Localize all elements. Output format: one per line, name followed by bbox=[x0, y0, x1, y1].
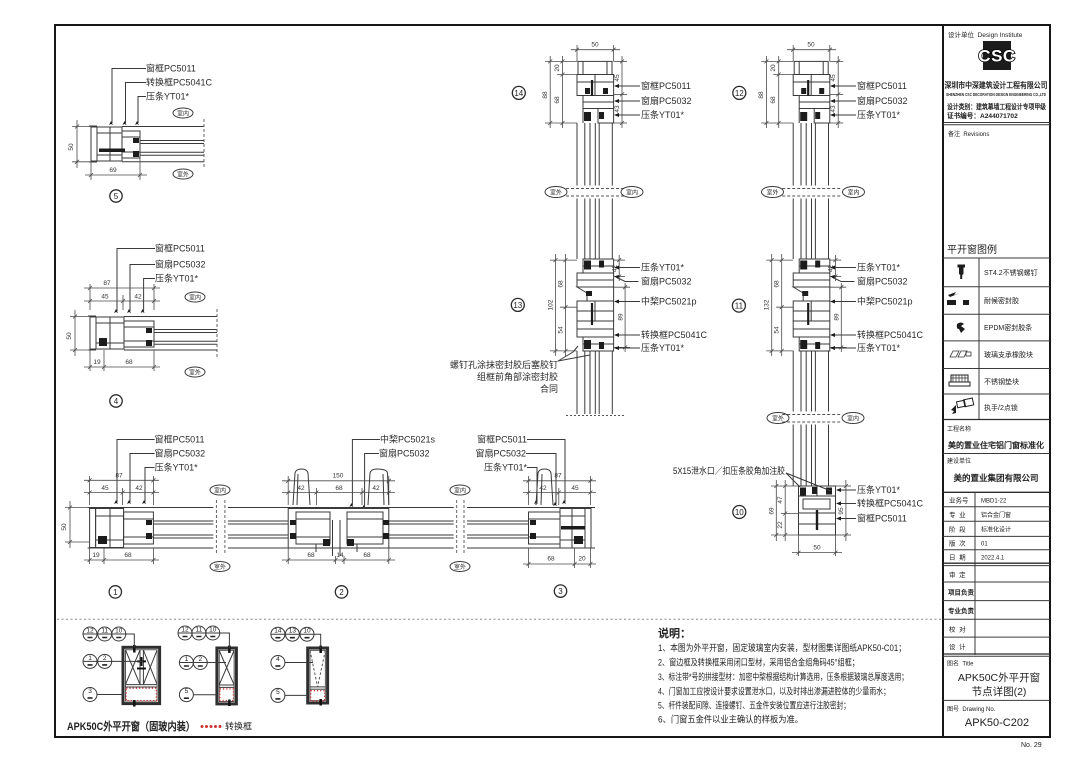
svg-text:转换框PC5041C: 转换框PC5041C bbox=[641, 329, 708, 340]
window 2 section marks bbox=[228, 646, 231, 654]
svg-text:2: 2 bbox=[339, 588, 344, 597]
detail 4 number circle bbox=[110, 395, 122, 407]
svg-text:窗扇PC5032: 窗扇PC5032 bbox=[641, 276, 692, 287]
detail 3 bottom dims 68 20 bbox=[523, 548, 596, 568]
handle profile on detail 2 right sash bbox=[368, 469, 389, 505]
signature rows bbox=[943, 581, 1050, 583]
handle profile on detail 2 left sash bbox=[293, 469, 310, 505]
red dots in caption bbox=[201, 725, 222, 728]
detail 14 labels bbox=[616, 86, 640, 115]
svg-text:转换框PC5041C: 转换框PC5041C bbox=[857, 498, 924, 509]
svg-text:窗框PC5011: 窗框PC5011 bbox=[477, 434, 527, 445]
svg-text:5、杆件装配间隙、连接螺钉、五金件安装位置应进行注胶密封；: 5、杆件装配间隙、连接螺钉、五金件安装位置应进行注胶密封； bbox=[658, 700, 850, 711]
svg-text:图名 Title: 图名 Title bbox=[947, 660, 974, 668]
glass run mid column upper bbox=[577, 123, 612, 259]
window 1 left bubbles 1 2 bbox=[83, 654, 143, 668]
legend row 6: handle / 2-point lock icon + text bbox=[951, 398, 974, 414]
svg-text:窗框PC5011: 窗框PC5011 bbox=[146, 63, 196, 74]
svg-text:68: 68 bbox=[770, 96, 777, 104]
detail 1 top dims 87 / 45 42 bbox=[84, 476, 159, 505]
detail 1 gaskets bbox=[146, 520, 152, 525]
svg-text:87: 87 bbox=[115, 473, 123, 480]
legend table frame bbox=[943, 257, 1050, 259]
svg-text:窗扇PC5032: 窗扇PC5032 bbox=[857, 95, 908, 106]
svg-text:设 计: 设 计 bbox=[949, 642, 966, 651]
svg-text:室外: 室外 bbox=[550, 189, 562, 197]
detail 4 frame profile bbox=[88, 316, 154, 350]
row outdoor ovals bbox=[210, 562, 230, 572]
legend row 1: screw icon + text bbox=[958, 265, 966, 280]
svg-text:转换框: 转换框 bbox=[225, 721, 252, 732]
window 1 section marks bbox=[133, 645, 136, 653]
svg-text:69: 69 bbox=[768, 507, 775, 515]
svg-text:19: 19 bbox=[92, 552, 100, 559]
svg-text:19: 19 bbox=[93, 359, 101, 366]
svg-text:1、本图为外平开窗，固定玻璃室内安装，型材图集详图纸APK5: 1、本图为外平开窗，固定玻璃室内安装，型材图集详图纸APK50-C01； bbox=[658, 642, 906, 653]
svg-text:APK50C外平开窗（固玻内装）: APK50C外平开窗（固玻内装） bbox=[67, 719, 195, 733]
svg-text:42: 42 bbox=[134, 294, 142, 301]
svg-text:合同: 合同 bbox=[540, 383, 558, 394]
svg-text:阶 段: 阶 段 bbox=[949, 525, 966, 534]
svg-text:2: 2 bbox=[198, 656, 202, 663]
detail 12 top dim 50 bbox=[787, 45, 836, 61]
svg-text:窗扇PC5032: 窗扇PC5032 bbox=[857, 276, 908, 287]
detail 10 left dims 69 47 22 bbox=[771, 480, 799, 541]
break right column upper with ovals bbox=[782, 186, 840, 199]
svg-text:87: 87 bbox=[103, 280, 111, 287]
svg-text:设计单位 Design Institute: 设计单位 Design Institute bbox=[948, 30, 1023, 39]
legend row 2: weather sealant icon + text bbox=[947, 292, 969, 305]
svg-text:室内: 室内 bbox=[177, 110, 189, 118]
svg-text:50: 50 bbox=[813, 545, 821, 552]
svg-text:中棃PC5021s: 中棃PC5021s bbox=[380, 434, 436, 445]
detail 13 left dims 102 68 54 bbox=[550, 254, 577, 356]
break mid column with ovals bbox=[566, 186, 624, 199]
title block left border bbox=[942, 25, 944, 737]
svg-text:68: 68 bbox=[554, 96, 561, 104]
svg-text:美的置业集团有限公司: 美的置业集团有限公司 bbox=[953, 473, 1038, 483]
svg-text:2、窗边框及转换框采用闭口型材，采用铝合金组角码45°组框；: 2、窗边框及转换框采用闭口型材，采用铝合金组角码45°组框； bbox=[658, 657, 859, 668]
legend row 4: glass setting block icon + text bbox=[950, 351, 971, 357]
svg-text:68: 68 bbox=[125, 359, 133, 366]
legend row 3: EPDM gasket icon + text bbox=[957, 323, 965, 334]
detail 5 number circle bbox=[110, 190, 122, 202]
screw note leader bbox=[558, 346, 578, 361]
detail 12 frame profile bbox=[793, 61, 830, 123]
info table bbox=[943, 491, 1050, 493]
svg-text:50: 50 bbox=[591, 42, 599, 49]
detail 14 left dims 88 20 68 bbox=[545, 56, 578, 128]
svg-text:室外: 室外 bbox=[772, 415, 784, 423]
separator double line bbox=[943, 122, 1050, 124]
svg-text:6、门窗五金件以业主确认的样板为准。: 6、门窗五金件以业主确认的样板为准。 bbox=[658, 714, 803, 725]
svg-text:43: 43 bbox=[830, 105, 837, 113]
svg-text:压条YT01*: 压条YT01* bbox=[484, 462, 528, 473]
svg-text:54: 54 bbox=[774, 326, 781, 334]
svg-text:日 期: 日 期 bbox=[949, 554, 966, 562]
detail 14 top dim 50 bbox=[571, 45, 620, 61]
window 2 left bubbles 1 2 bbox=[179, 656, 226, 670]
svg-text:42: 42 bbox=[297, 485, 305, 492]
svg-text:45: 45 bbox=[101, 485, 109, 492]
detail 13 right dims 42 89 bbox=[614, 255, 630, 352]
svg-text:证书编号：A244071702: 证书编号：A244071702 bbox=[947, 111, 1018, 120]
detail 14 number circle bbox=[512, 86, 525, 99]
svg-text:14: 14 bbox=[274, 628, 282, 635]
window 2 bottom bubble 5 bbox=[179, 688, 217, 702]
window 2 top bubbles 12 11 10 bbox=[178, 626, 229, 649]
svg-text:2022.4.1: 2022.4.1 bbox=[981, 556, 1005, 562]
svg-text:CSC: CSC bbox=[978, 47, 1015, 66]
svg-text:耐候密封胶: 耐候密封胶 bbox=[984, 296, 1019, 305]
svg-text:68: 68 bbox=[547, 556, 555, 563]
detail 11 labels bbox=[832, 268, 856, 349]
svg-text:标准化设计: 标准化设计 bbox=[981, 526, 1011, 534]
svg-text:4、门窗加工应按设计要求设置泄水口，以及时排出渗漏进腔体的少: 4、门窗加工应按设计要求设置泄水口，以及时排出渗漏进腔体的少量雨水； bbox=[658, 686, 890, 697]
window 1 elevation frame bbox=[123, 647, 160, 703]
window 1 red dotted transfer frame bbox=[126, 688, 156, 701]
window 2 elevation frame bbox=[217, 648, 237, 704]
svg-text:4: 4 bbox=[276, 656, 280, 663]
svg-text:20: 20 bbox=[578, 556, 586, 563]
detail 2 mullion profile bbox=[288, 509, 389, 557]
detail 14 gaskets and screw bbox=[585, 88, 590, 94]
svg-text:深圳市中深建筑设计工程有限公司: 深圳市中深建筑设计工程有限公司 bbox=[945, 80, 1048, 90]
svg-text:工程名称: 工程名称 bbox=[947, 425, 971, 433]
svg-text:窗扇PC5032: 窗扇PC5032 bbox=[641, 95, 692, 106]
svg-text:102: 102 bbox=[548, 299, 555, 310]
svg-text:专 业: 专 业 bbox=[949, 510, 966, 519]
detail 5 dim 69 horizontal bbox=[85, 158, 147, 180]
detail 10 gaskets and screw bbox=[800, 488, 806, 496]
svg-text:压条YT01*: 压条YT01* bbox=[146, 91, 190, 102]
svg-text:压条YT01*: 压条YT01* bbox=[641, 109, 685, 120]
svg-text:20: 20 bbox=[554, 64, 561, 72]
detail 4 outdoor oval bbox=[185, 367, 205, 377]
detail 5 glass assembly bbox=[122, 127, 204, 162]
window 1 bottom bubble 3 bbox=[83, 688, 123, 702]
detail 4 label leaders bbox=[117, 249, 155, 312]
svg-text:68: 68 bbox=[335, 485, 343, 492]
svg-text:业务号: 业务号 bbox=[949, 496, 969, 505]
svg-text:ST4.2不锈钢螺钉: ST4.2不锈钢螺钉 bbox=[984, 268, 1038, 277]
glass run right column upper bbox=[793, 123, 828, 259]
svg-text:压条YT01*: 压条YT01* bbox=[641, 262, 685, 273]
svg-text:项目负责: 项目负责 bbox=[948, 588, 975, 597]
detail 10 right dim 95 bbox=[836, 480, 852, 541]
svg-text:42: 42 bbox=[372, 485, 380, 492]
svg-text:13: 13 bbox=[513, 301, 522, 310]
svg-text:组框前角部涂密封胶: 组框前角部涂密封胶 bbox=[477, 371, 558, 382]
detail 4 dim 87 bbox=[84, 284, 160, 310]
svg-text:42: 42 bbox=[135, 485, 143, 492]
svg-text:备注 Revisions: 备注 Revisions bbox=[948, 130, 989, 138]
detail 12 right dims 45 43 bbox=[830, 56, 843, 128]
svg-text:压条YT01*: 压条YT01* bbox=[155, 273, 199, 284]
svg-text:室外: 室外 bbox=[454, 563, 466, 571]
detail 12 labels bbox=[832, 86, 856, 115]
svg-text:12: 12 bbox=[735, 89, 744, 98]
svg-text:01: 01 bbox=[981, 542, 988, 548]
svg-text:69: 69 bbox=[109, 167, 117, 174]
svg-text:1: 1 bbox=[185, 656, 189, 663]
svg-text:室内: 室内 bbox=[189, 294, 201, 302]
svg-text:54: 54 bbox=[558, 326, 565, 334]
detail 3 frame profile bbox=[529, 508, 596, 549]
svg-text:43: 43 bbox=[614, 105, 621, 113]
svg-text:节点详图(2): 节点详图(2) bbox=[972, 685, 1027, 698]
svg-text:3: 3 bbox=[88, 688, 92, 695]
svg-text:窗扇PC5032: 窗扇PC5032 bbox=[155, 448, 206, 459]
detail 5 label leaders bbox=[112, 69, 146, 124]
detail 11 right dims 42 89 bbox=[830, 255, 846, 352]
svg-text:EPDM密封胶条: EPDM密封胶条 bbox=[984, 323, 1032, 332]
svg-text:68: 68 bbox=[774, 280, 781, 288]
svg-text:50: 50 bbox=[61, 523, 68, 531]
detail 5 outdoor oval bbox=[173, 169, 193, 179]
svg-text:版 次: 版 次 bbox=[949, 539, 966, 548]
CSC logo bbox=[978, 41, 1015, 70]
svg-text:说明：: 说明： bbox=[658, 626, 691, 640]
svg-text:68: 68 bbox=[363, 552, 371, 559]
detail 4 bottom dims 19 68 bbox=[84, 350, 160, 371]
svg-text:2: 2 bbox=[103, 655, 107, 662]
window 3 left bubble 4 bbox=[271, 656, 313, 670]
glass run between detail 1 and 2 bbox=[153, 521, 288, 538]
svg-text:室外: 室外 bbox=[214, 563, 226, 571]
break gap 2 with dashed lines bbox=[454, 503, 467, 552]
svg-text:建设单位: 建设单位 bbox=[947, 457, 971, 465]
svg-text:室内: 室内 bbox=[626, 189, 638, 197]
svg-text:压条YT01*: 压条YT01* bbox=[857, 342, 901, 353]
svg-text:68: 68 bbox=[307, 552, 315, 559]
svg-text:14: 14 bbox=[514, 89, 523, 98]
svg-text:室内: 室内 bbox=[454, 487, 466, 495]
detail 4 break line bbox=[216, 309, 218, 358]
svg-text:中棃PC5021p: 中棃PC5021p bbox=[641, 296, 697, 307]
svg-text:设计类别：建筑幕墙工程设计专项甲级: 设计类别：建筑幕墙工程设计专项甲级 bbox=[947, 102, 1046, 111]
detail 12 left dims 88 20 68 bbox=[761, 56, 794, 128]
detail 2 bottom dims 68 14 68 bbox=[282, 548, 395, 564]
band top and bottom continuous lines bbox=[90, 507, 591, 509]
svg-text:12: 12 bbox=[86, 628, 94, 635]
detail 10 number circle bbox=[733, 506, 746, 519]
break gap 1 with dashed lines bbox=[213, 503, 228, 552]
svg-text:室内: 室内 bbox=[214, 487, 226, 495]
detail 3 top dims 87 / 42 45 bbox=[523, 476, 596, 505]
detail 11 gaskets and screws bbox=[800, 261, 820, 350]
svg-text:MBD1-22: MBD1-22 bbox=[981, 499, 1007, 505]
detail 13 number circle bbox=[511, 298, 524, 311]
svg-text:APK50C外平开窗: APK50C外平开窗 bbox=[958, 671, 1040, 684]
svg-text:SHENZHEN CSC DECORATION DESIGN: SHENZHEN CSC DECORATION DESIGN ENGINEERI… bbox=[946, 92, 1046, 97]
svg-text:5: 5 bbox=[114, 192, 119, 201]
break right column lower with ovals bbox=[782, 412, 840, 425]
svg-text:铝合金门窗: 铝合金门窗 bbox=[981, 511, 1011, 519]
detail 1 dim 50 vertical bbox=[65, 501, 90, 548]
svg-text:不锈钢垫块: 不锈钢垫块 bbox=[984, 377, 1019, 386]
svg-text:窗框PC5011: 窗框PC5011 bbox=[641, 80, 691, 91]
svg-text:45: 45 bbox=[614, 74, 621, 82]
svg-text:校 对: 校 对 bbox=[949, 625, 966, 634]
glass run mid column lower bbox=[577, 351, 612, 414]
detail 14 right dims 45 43 bbox=[614, 56, 627, 128]
detail 2 label leaders bbox=[352, 440, 380, 508]
svg-text:50: 50 bbox=[66, 332, 73, 340]
detail 3 label leaders bbox=[526, 440, 565, 505]
svg-text:1: 1 bbox=[88, 655, 92, 662]
detail 13 profile bbox=[577, 259, 614, 351]
svg-text:螺钉孔涂抹密封胶后塞胶钉: 螺钉孔涂抹密封胶后塞胶钉 bbox=[450, 359, 558, 370]
svg-text:压条YT01*: 压条YT01* bbox=[155, 462, 199, 473]
svg-text:执手/2点锁: 执手/2点锁 bbox=[984, 403, 1018, 412]
svg-text:22: 22 bbox=[777, 521, 784, 529]
detail 13 gaskets and screws bbox=[584, 261, 591, 270]
window 3 bottom bubble 5 bbox=[271, 688, 308, 702]
detail 5 indoor oval bbox=[173, 108, 193, 118]
svg-text:68: 68 bbox=[558, 280, 565, 288]
detail 13 labels bbox=[616, 268, 640, 349]
svg-text:45: 45 bbox=[571, 485, 579, 492]
svg-text:150: 150 bbox=[333, 473, 344, 480]
svg-text:压条YT01*: 压条YT01* bbox=[641, 342, 685, 353]
svg-text:132: 132 bbox=[764, 299, 771, 310]
drain hole note leaders bbox=[786, 473, 800, 487]
glass run between detail 2 and 3 bbox=[389, 521, 529, 538]
svg-text:20: 20 bbox=[770, 64, 777, 72]
svg-text:室外: 室外 bbox=[177, 171, 189, 179]
detail 1 label leaders bbox=[117, 440, 155, 503]
svg-text:4: 4 bbox=[114, 397, 119, 406]
svg-text:窗框PC5011: 窗框PC5011 bbox=[155, 434, 205, 445]
svg-text:窗扇PC5032: 窗扇PC5032 bbox=[155, 259, 206, 270]
number circles 1 2 3 bbox=[109, 586, 121, 598]
detail 1 bottom dims 19 68 bbox=[84, 548, 159, 564]
detail 10 bottom dim 50 bbox=[792, 535, 842, 556]
svg-text:50: 50 bbox=[68, 143, 75, 151]
svg-text:室内: 室内 bbox=[847, 415, 859, 423]
svg-text:14: 14 bbox=[336, 552, 344, 559]
window 3 elevation frame bbox=[308, 648, 328, 703]
svg-text:平开窗图例: 平开窗图例 bbox=[947, 243, 997, 256]
svg-text:5X15泄水口／扣压条胶角加注胶: 5X15泄水口／扣压条胶角加注胶 bbox=[673, 465, 785, 476]
detail 12 number circle bbox=[733, 86, 746, 99]
detail 11 profile bbox=[793, 259, 830, 351]
svg-text:42: 42 bbox=[539, 485, 547, 492]
detail 2 gaskets bbox=[290, 520, 296, 525]
glass run right column lower bbox=[793, 351, 828, 486]
window 3 section marks bbox=[319, 646, 322, 654]
svg-text:窗框PC5011: 窗框PC5011 bbox=[155, 243, 205, 254]
detail 10 labels bbox=[838, 490, 856, 519]
svg-text:窗扇PC5032: 窗扇PC5032 bbox=[379, 448, 430, 459]
svg-text:47: 47 bbox=[777, 496, 784, 504]
detail 1 frame profile bbox=[88, 508, 154, 549]
svg-text:5: 5 bbox=[276, 689, 280, 696]
svg-text:11: 11 bbox=[101, 628, 108, 635]
svg-text:室外: 室外 bbox=[766, 189, 778, 197]
detail 5 break line bbox=[203, 119, 205, 169]
svg-text:50: 50 bbox=[807, 42, 815, 49]
svg-text:室外: 室外 bbox=[189, 369, 201, 377]
svg-text:压条YT01*: 压条YT01* bbox=[857, 109, 901, 120]
detail 3 gaskets bbox=[530, 520, 536, 525]
detail 12 gaskets and screw bbox=[800, 80, 824, 121]
svg-text:13: 13 bbox=[289, 628, 297, 635]
svg-text:10: 10 bbox=[303, 628, 311, 635]
svg-text:压条YT01*: 压条YT01* bbox=[857, 484, 901, 495]
svg-text:5: 5 bbox=[185, 688, 189, 695]
detail 5 screw bbox=[99, 149, 125, 153]
svg-text:89: 89 bbox=[834, 313, 841, 321]
svg-text:窗框PC5011: 窗框PC5011 bbox=[857, 513, 907, 524]
svg-text:87: 87 bbox=[554, 473, 562, 480]
svg-text:转换框PC5041C: 转换框PC5041C bbox=[146, 77, 213, 88]
legend row 5: stainless pad icon + text bbox=[949, 375, 970, 386]
svg-text:68: 68 bbox=[124, 552, 132, 559]
svg-text:玻璃支承橡胶块: 玻璃支承橡胶块 bbox=[984, 350, 1033, 359]
detail 4 gaskets bbox=[146, 328, 152, 333]
svg-text:95: 95 bbox=[838, 507, 845, 515]
detail 4 dim 50 vertical bbox=[70, 310, 90, 356]
dotted separator above elevation strip bbox=[57, 618, 941, 620]
window 2 red dotted transfer frame bbox=[220, 689, 234, 701]
svg-text:No. 29: No. 29 bbox=[1021, 742, 1042, 749]
svg-text:10: 10 bbox=[735, 508, 744, 517]
svg-text:89: 89 bbox=[618, 313, 625, 321]
detail 10 sill profile bbox=[799, 486, 836, 535]
svg-text:88: 88 bbox=[542, 91, 549, 99]
svg-text:窗框PC5011: 窗框PC5011 bbox=[857, 80, 907, 91]
svg-text:11: 11 bbox=[735, 302, 744, 311]
svg-text:审 定: 审 定 bbox=[949, 570, 966, 579]
window 1 top bubbles 12 11 10 bbox=[83, 627, 134, 648]
svg-text:10: 10 bbox=[209, 627, 217, 634]
svg-text:1: 1 bbox=[113, 588, 118, 597]
svg-text:压条YT01*: 压条YT01* bbox=[857, 262, 901, 273]
svg-text:美的置业住宅铝门窗标准化: 美的置业住宅铝门窗标准化 bbox=[948, 440, 1044, 450]
detail 11 left dims 132 68 54 bbox=[766, 254, 793, 356]
svg-text:12: 12 bbox=[181, 627, 189, 634]
svg-text:45: 45 bbox=[830, 74, 837, 82]
svg-text:3、标注带*号的拼接型材：加密中棃根据结构计算选用，压条根据: 3、标注带*号的拼接型材：加密中棃根据结构计算选用，压条根据玻璃总厚度选用； bbox=[658, 671, 908, 682]
svg-text:室内: 室内 bbox=[847, 189, 859, 197]
detail 5 gaskets bbox=[133, 138, 139, 143]
svg-text:窗扇PC5032: 窗扇PC5032 bbox=[475, 448, 526, 459]
svg-text:图号 Drawing No.: 图号 Drawing No. bbox=[947, 706, 996, 713]
svg-text:中棃PC5021p: 中棃PC5021p bbox=[857, 296, 913, 307]
detail 5 dim 50 vertical bbox=[72, 120, 91, 168]
svg-text:11: 11 bbox=[196, 627, 203, 634]
detail 14 frame profile bbox=[577, 61, 614, 123]
svg-text:3: 3 bbox=[558, 587, 563, 596]
window 3 top bubbles 14 13 10 bbox=[271, 627, 321, 648]
detail 4 glass assembly bbox=[124, 317, 217, 351]
svg-text:APK50-C202: APK50-C202 bbox=[965, 717, 1029, 729]
svg-text:专业负责: 专业负责 bbox=[948, 606, 975, 615]
row indoor ovals bbox=[210, 485, 230, 495]
svg-text:转换框PC5041C: 转换框PC5041C bbox=[857, 329, 924, 340]
detail 11 number circle bbox=[732, 299, 745, 312]
detail 4 indoor oval bbox=[185, 292, 205, 302]
mid column cut-off dashes bbox=[566, 415, 624, 417]
detail 3 screw bbox=[561, 526, 585, 530]
detail 5 frame profile bbox=[89, 126, 140, 162]
detail 4 dim 45 42 bbox=[84, 295, 160, 310]
svg-text:45: 45 bbox=[101, 294, 109, 301]
svg-text:10: 10 bbox=[115, 628, 123, 635]
svg-text:88: 88 bbox=[758, 91, 765, 99]
